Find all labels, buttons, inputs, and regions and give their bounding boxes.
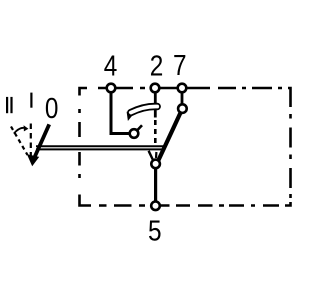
svg-text:4: 4 [104, 49, 118, 81]
svg-text:7: 7 [173, 49, 187, 81]
svg-text:2: 2 [150, 49, 164, 81]
svg-text:0: 0 [45, 92, 59, 124]
svg-text:5: 5 [148, 215, 162, 247]
